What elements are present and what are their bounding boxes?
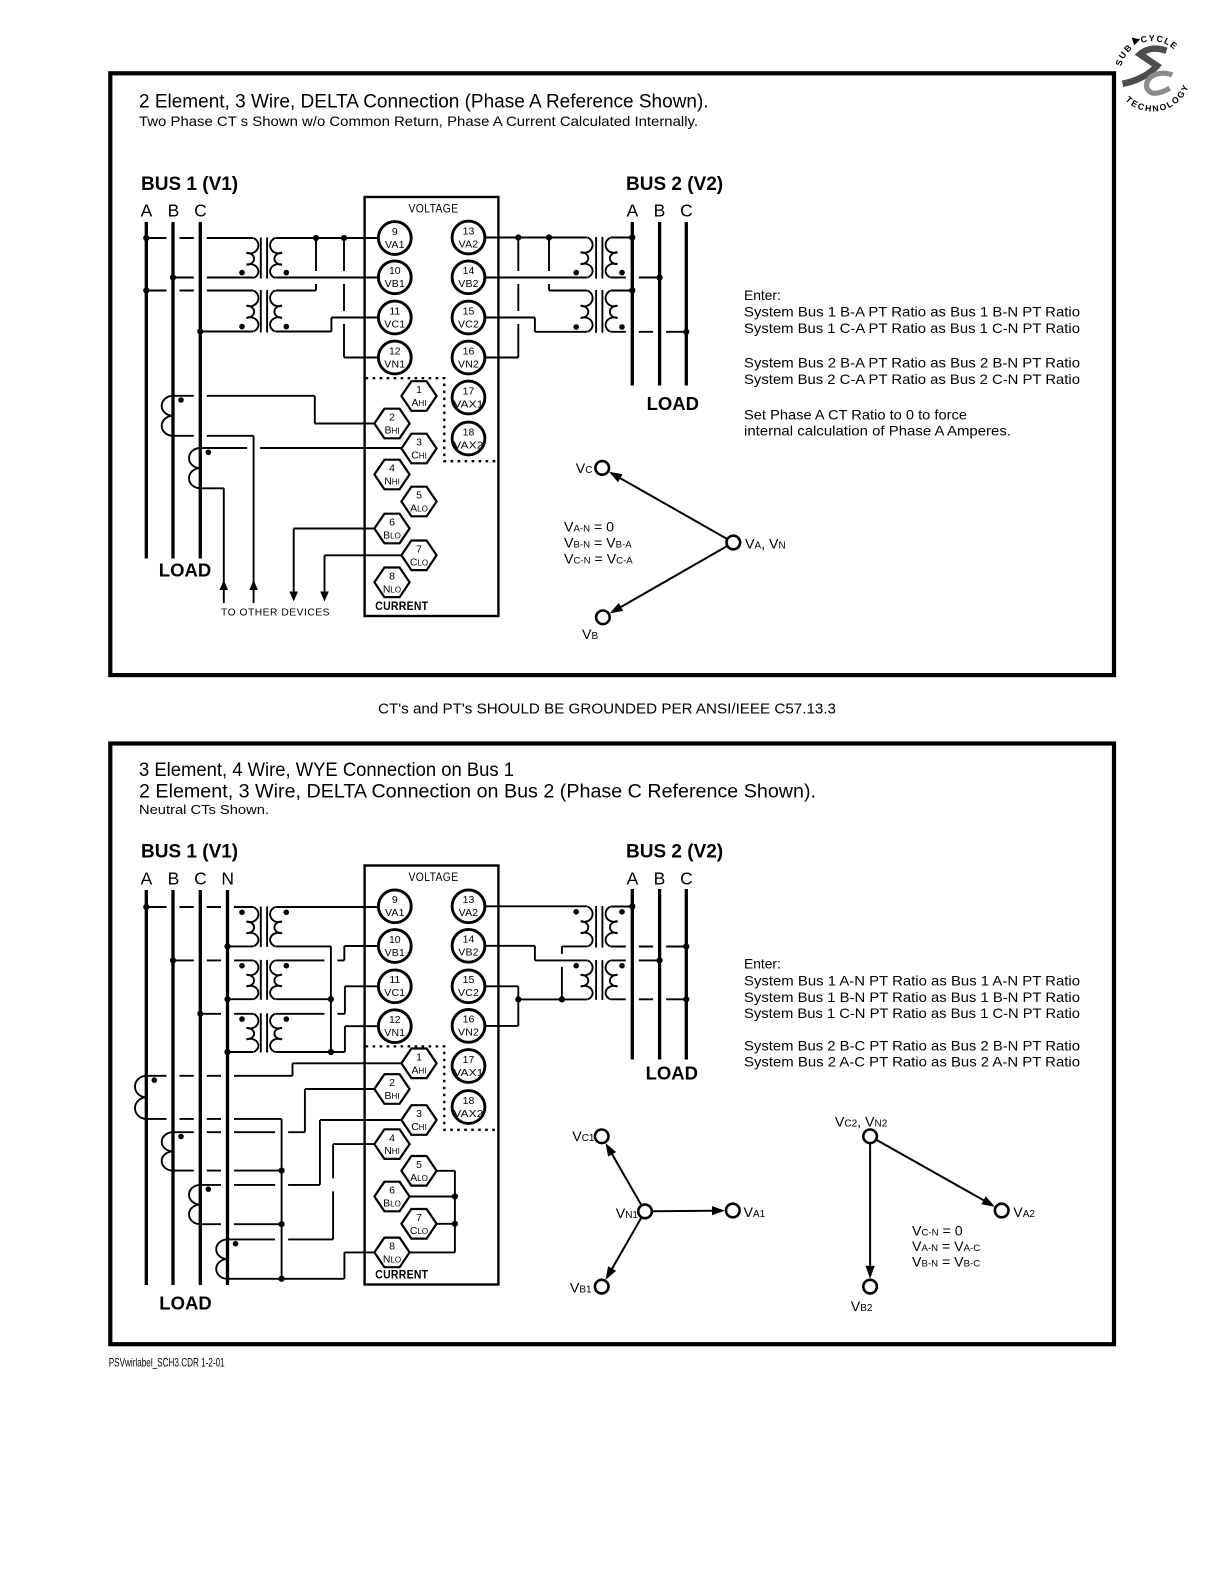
svg-text:System Bus 1 A-N PT Ratio as B: System Bus 1 A-N PT Ratio as Bus 1 A-N P… <box>744 974 1080 989</box>
junction secondary C net / VC2,VN2 tie <box>515 996 521 1002</box>
wire PT5 secondary top to VA1 <box>276 906 380 908</box>
junction bus A2 / PT4 top <box>629 287 635 293</box>
svg-text:1: 1 <box>416 1052 422 1064</box>
svg-text:VAX1: VAX1 <box>454 1067 484 1079</box>
svg-text:VA2: VA2 <box>459 907 479 919</box>
terminal 5 ALO panel2 <box>401 1156 436 1186</box>
svg-text:LOAD: LOAD <box>647 393 699 414</box>
bus2 phase labels A B C <box>627 201 693 221</box>
terminal 14 VB2 panel2 <box>452 929 485 962</box>
svg-text:VN2: VN2 <box>458 1027 479 1039</box>
junction bus A / PT1 <box>143 235 149 241</box>
svg-text:CLO: CLO <box>410 556 428 568</box>
terminal 1 AHI <box>401 381 436 411</box>
wire VN1 to secondary neutral <box>345 1025 380 1027</box>
svg-text:13: 13 <box>463 894 475 906</box>
svg-text:VAX2: VAX2 <box>454 1108 484 1120</box>
svg-text:15: 15 <box>463 305 475 317</box>
wire VN2 tie to VA2 wire <box>485 357 518 359</box>
svg-text:5: 5 <box>416 1159 422 1171</box>
CT C polarity dot <box>206 450 212 456</box>
wire bus A to PT5 primary top <box>146 906 253 908</box>
svg-text:B: B <box>654 201 666 221</box>
svg-text:A: A <box>141 869 153 889</box>
svg-text:BUS 1 (V1): BUS 1 (V1) <box>141 842 238 863</box>
wire PT7 primary bottom to neutral N <box>228 1051 254 1053</box>
svg-text:Set Phase A CT Ratio to 0 to f: Set Phase A CT Ratio to 0 to force <box>744 407 967 422</box>
CT B polarity dot <box>178 397 184 403</box>
svg-text:AHI: AHI <box>411 397 426 409</box>
svg-text:15: 15 <box>463 974 475 986</box>
junction bus C2 / PT9 bottom <box>683 996 689 1002</box>
svg-text:Enter:: Enter: <box>744 288 781 303</box>
terminal 18 VAX2 panel2 <box>452 1091 485 1124</box>
terminal 18 VAX2 <box>452 422 485 455</box>
bus2 phase labels A B C panel2 <box>627 869 693 889</box>
wire bus B to PT6 primary top <box>173 959 253 961</box>
junction bus A2 / PT3 top <box>629 234 635 240</box>
junction bus C2 / PT8 bottom <box>683 943 689 949</box>
svg-text:CURRENT: CURRENT <box>375 601 428 613</box>
svg-text:6: 6 <box>389 517 395 529</box>
panel 2 border <box>110 744 1114 1345</box>
transformer PT4 polarity dots <box>573 324 624 330</box>
wire PT5 primary bottom to neutral N <box>228 945 254 947</box>
junction secondary C net / PT8 tie <box>559 996 565 1002</box>
terminal 8 NLO panel2 <box>374 1238 409 1268</box>
svg-text:NLO: NLO <box>383 1253 401 1265</box>
terminal 10 VB1 panel2 <box>378 930 411 963</box>
wire CT-B secondary top to terminal BHI panel2 <box>173 1131 305 1133</box>
transformer PT3 primary coil <box>606 238 618 278</box>
phasor arrow VC2 to VB2 <box>869 1143 871 1266</box>
svg-text:A: A <box>627 869 639 889</box>
phasor arrow VA to VC <box>620 478 727 539</box>
bus1 line A <box>145 222 148 559</box>
CT B polarity dot panel2 <box>178 1134 184 1140</box>
arrow down to other devices (CLO) <box>320 592 329 602</box>
svg-text:4: 4 <box>389 463 395 475</box>
terminal 14 VB2 <box>452 261 485 294</box>
transformer PT7 secondary coil <box>270 1014 282 1052</box>
transformer PT3 secondary coil <box>581 238 593 278</box>
svg-text:VA1: VA1 <box>385 907 405 919</box>
svg-text:C: C <box>680 201 693 221</box>
terminal 9 VA1 <box>378 222 411 255</box>
wire bus A to PT1 primary top <box>146 237 253 239</box>
svg-text:BLO: BLO <box>383 530 401 542</box>
transformer PT5 polarity dots <box>239 910 289 916</box>
wire CT-C secondary top to terminal CHI panel2 <box>200 1184 320 1186</box>
phasor node VC <box>595 461 609 475</box>
svg-text:BUS 1 (V1): BUS 1 (V1) <box>141 174 238 195</box>
svg-text:BUS 2 (V2): BUS 2 (V2) <box>626 842 723 863</box>
svg-text:3: 3 <box>416 1108 422 1120</box>
transformer PT9 primary coil <box>606 960 618 999</box>
bus2 line B panel2 <box>658 889 661 1060</box>
wire PT6 secondary top to VB1 <box>276 959 345 961</box>
svg-text:VN2: VN2 <box>458 358 479 370</box>
svg-text:8: 8 <box>389 1241 395 1253</box>
svg-text:12: 12 <box>389 1014 401 1026</box>
wire CT-B secondary bottom to other devices <box>173 435 254 437</box>
wire VC2 to secondary C net <box>485 985 518 987</box>
transformer PT2 primary coil <box>247 291 259 332</box>
svg-text:CHI: CHI <box>411 450 427 462</box>
svg-text:12: 12 <box>389 345 401 357</box>
svg-text:3 Element, 4 Wire, WYE Connect: 3 Element, 4 Wire, WYE Connection on Bus… <box>139 760 514 781</box>
svg-text:Two Phase CT s Shown w/o Commo: Two Phase CT s Shown w/o Common Return, … <box>139 113 698 129</box>
svg-text:A: A <box>141 201 153 221</box>
wire CT-C secondary bottom to common return panel2 <box>200 1223 281 1225</box>
svg-text:6: 6 <box>389 1185 395 1197</box>
wire bus A to PT2 primary top <box>146 290 253 292</box>
wire bus C to PT7 primary top <box>200 1013 253 1015</box>
svg-text:VB1: VB1 <box>385 947 405 959</box>
junction VA2 wire / VN2 tie <box>515 234 521 240</box>
junction bus C2 / PT4 bottom <box>683 329 689 335</box>
svg-text:18: 18 <box>463 426 475 438</box>
svg-text:VC2: VC2 <box>458 987 479 999</box>
phasor node VB1 <box>595 1280 609 1294</box>
CT N polarity dot panel2 <box>233 1241 239 1247</box>
terminal 16 VN2 <box>452 341 485 374</box>
svg-text:N: N <box>221 869 234 889</box>
junction bus A / PT2 <box>143 287 149 293</box>
svg-text:C: C <box>194 201 207 221</box>
terminal 6 BLO panel2 <box>374 1182 409 1212</box>
CT on bus B <box>162 396 173 436</box>
transformer PT6 primary coil <box>247 960 259 999</box>
transformer PT7 primary coil <box>247 1014 259 1052</box>
terminal 12 VN1 panel2 <box>378 1010 411 1043</box>
CT C polarity dot panel2 <box>206 1186 212 1192</box>
svg-text:13: 13 <box>463 225 475 237</box>
bus1 line C <box>199 222 202 559</box>
transformer PT2 core <box>261 290 267 333</box>
svg-text:VB1: VB1 <box>385 278 405 290</box>
terminal 11 VC1 panel2 <box>378 970 411 1003</box>
svg-text:VN1: VN1 <box>384 1027 405 1039</box>
wire VN2 to secondary C net <box>485 1025 518 1027</box>
wire CT-A secondary bottom to common return <box>146 1118 281 1120</box>
phasor arrow VA to VB <box>621 546 728 607</box>
phasor node VC1 <box>595 1130 609 1144</box>
terminal 4 NHI <box>374 460 409 490</box>
CT on bus C <box>189 448 200 488</box>
bus2 line A panel2 <box>631 889 634 1060</box>
svg-text:VA1: VA1 <box>385 239 405 251</box>
terminal 17 VAX1 panel2 <box>452 1050 485 1083</box>
terminal 1 AHI panel2 <box>401 1049 436 1079</box>
transformer PT1 secondary coil <box>270 238 282 278</box>
svg-text:TO OTHER DEVICES: TO OTHER DEVICES <box>221 608 330 619</box>
terminal 4 NHI panel2 <box>374 1129 409 1159</box>
wire BLO to LO tie <box>410 1196 455 1198</box>
bus1 phase labels A B C <box>141 201 207 221</box>
svg-text:2 Element, 3 Wire, DELTA Conne: 2 Element, 3 Wire, DELTA Connection (Pha… <box>139 92 709 113</box>
phasor node VN1 <box>638 1205 652 1219</box>
svg-text:17: 17 <box>463 1054 475 1066</box>
transformer PT1 polarity dots <box>239 270 289 276</box>
svg-text:PSVwirlabel_SCH3.CDR 1-2-01: PSVwirlabel_SCH3.CDR 1-2-01 <box>109 1356 225 1370</box>
svg-text:BHI: BHI <box>384 425 399 437</box>
svg-text:System Bus 1 C-A PT Ratio as B: System Bus 1 C-A PT Ratio as Bus 1 C-N P… <box>744 321 1080 336</box>
wire CT-N secondary bottom to terminal NLO <box>228 1278 345 1280</box>
svg-text:VA-N = 0: VA-N = 0 <box>564 520 614 536</box>
dashed group box panel2 <box>366 1046 499 1129</box>
svg-text:LOAD: LOAD <box>159 1293 211 1314</box>
phasor node VA2 <box>995 1204 1009 1218</box>
wire bus C to PT2 primary bottom <box>200 331 253 333</box>
transformer PT9 secondary coil <box>581 960 593 999</box>
bus1 phase labels A B C N panel2 <box>141 869 234 889</box>
svg-text:NLO: NLO <box>383 583 401 595</box>
wire PT2 secondary bottom to VC1 <box>276 331 332 333</box>
wire PT6 secondary bottom to secondary neutral <box>276 998 331 1000</box>
transformer PT7 core <box>261 1013 267 1052</box>
wire PT2 secondary top tie to VA1 wire <box>276 290 317 292</box>
junction bus C / PT2 <box>197 328 203 334</box>
wire CT-C secondary top to terminal CHI <box>200 447 401 449</box>
svg-text:9: 9 <box>392 894 398 906</box>
junction LO tie / BLO <box>452 1193 458 1199</box>
svg-text:NHI: NHI <box>384 1145 400 1157</box>
svg-text:System Bus 2 C-A PT Ratio as B: System Bus 2 C-A PT Ratio as Bus 2 C-N P… <box>744 372 1080 387</box>
svg-text:10: 10 <box>389 934 401 946</box>
wire PT1 secondary top to VA1 <box>276 237 380 239</box>
svg-text:11: 11 <box>389 305 400 317</box>
wire VC2 to PT4 secondary bottom <box>485 317 535 319</box>
svg-text:11: 11 <box>389 974 400 986</box>
note text Enter ratios (panel 2) <box>744 957 1080 1070</box>
wire CLO to LO tie <box>437 1223 455 1225</box>
svg-text:BLO: BLO <box>383 1198 401 1210</box>
transformer PT1 primary coil <box>247 238 259 278</box>
wire CT-A secondary top to terminal AHI <box>146 1075 292 1077</box>
CT on bus N panel2 <box>216 1239 227 1278</box>
phasor arrow VC2 to VA2 <box>876 1140 984 1201</box>
junction bus C / PT7 <box>197 1011 203 1017</box>
svg-text:LOAD: LOAD <box>159 560 211 581</box>
wire PT9 primary bottom to bus C2 <box>611 998 686 1000</box>
terminal 2 BHI panel2 <box>374 1074 409 1104</box>
wire VA2 to PT3 secondary top <box>485 237 587 239</box>
svg-text:ALO: ALO <box>410 503 428 515</box>
svg-text:14: 14 <box>463 934 475 946</box>
terminal 11 VC1 <box>378 301 411 334</box>
svg-text:AHI: AHI <box>411 1064 426 1076</box>
svg-text:ALO: ALO <box>410 1172 428 1184</box>
svg-text:3: 3 <box>416 437 422 449</box>
svg-text:VB2: VB2 <box>458 947 478 959</box>
bus2 line B <box>658 222 661 386</box>
svg-text:2: 2 <box>389 1077 395 1089</box>
CT A polarity dot <box>152 1077 158 1083</box>
wire PT7 secondary bottom to secondary neutral <box>276 1051 331 1053</box>
svg-text:Enter:: Enter: <box>744 957 781 972</box>
wire PT4 primary top to bus A2 <box>611 290 632 292</box>
svg-text:VC1: VC1 <box>384 318 405 330</box>
wire PT1 secondary bottom to VB1 <box>276 277 380 279</box>
svg-text:16: 16 <box>463 345 475 357</box>
junction bus N / PT5 <box>224 943 230 949</box>
phasor node VB <box>596 611 610 625</box>
junction bus B / PT1 <box>170 274 176 280</box>
svg-text:1: 1 <box>416 384 422 396</box>
svg-text:BUS 2 (V2): BUS 2 (V2) <box>626 174 723 195</box>
svg-text:B: B <box>168 201 180 221</box>
svg-text:VAX1: VAX1 <box>454 398 484 410</box>
svg-text:LOAD: LOAD <box>646 1063 698 1084</box>
bus1 line B panel2 <box>171 890 174 1285</box>
svg-text:CLO: CLO <box>410 1225 428 1237</box>
wire CT-C secondary bottom to other devices <box>200 487 224 489</box>
svg-text:VC1: VC1 <box>384 987 405 999</box>
terminal 16 VN2 panel2 <box>452 1010 485 1043</box>
junction return / CT-C <box>279 1221 285 1227</box>
terminal 10 VB1 <box>378 261 411 294</box>
svg-text:VN1: VN1 <box>384 358 405 370</box>
transformer PT8 polarity dots <box>573 909 624 915</box>
terminal 8 NLO <box>374 568 409 598</box>
transformer PT4 secondary coil <box>581 291 593 332</box>
bus1 line C panel2 <box>199 890 202 1285</box>
transformer PT2 polarity dots <box>239 324 289 330</box>
transformer PT6 core <box>261 960 267 1000</box>
terminal 3 CHI <box>401 434 436 464</box>
junction bus B2 / PT3 bottom <box>657 274 663 280</box>
transformer PT5 core <box>261 907 267 947</box>
panel 1 border <box>110 73 1114 675</box>
wire PT8 secondary bottom tie down <box>562 945 587 947</box>
svg-text:System Bus 2 B-A PT Ratio as B: System Bus 2 B-A PT Ratio as Bus 2 B-N P… <box>744 356 1080 371</box>
phasor arrow VN1 to VA1 <box>652 1210 712 1213</box>
arrow up from other devices (C return) <box>220 580 229 590</box>
wire PT7 secondary top to VC1 <box>276 1013 345 1015</box>
junction secondary neutral / PT6 bottom <box>328 996 334 1002</box>
CT on bus B panel2 <box>162 1132 173 1170</box>
junction secondary neutral / VN1 tie <box>328 1049 334 1055</box>
phasor arrow VN1 to VB1 <box>612 1217 642 1268</box>
terminal 5 ALO <box>401 487 436 517</box>
svg-text:BHI: BHI <box>384 1090 399 1102</box>
phasor node VA1 <box>726 1204 740 1218</box>
wire VA2 to PT8 secondary top <box>485 905 587 907</box>
transformer PT5 primary coil <box>247 907 259 946</box>
bus1 line N panel2 <box>226 890 229 1285</box>
bus1 line B <box>171 222 174 559</box>
transformer PT8 secondary coil <box>581 907 593 947</box>
phasor node VA,VN <box>727 536 741 550</box>
svg-text:B: B <box>168 869 180 889</box>
terminal 7 CLO <box>401 541 436 571</box>
junction VA1 wire / VN1 tie <box>341 235 347 241</box>
wire CT-N secondary top to terminal NHI panel2 <box>228 1238 334 1240</box>
junction bus A / PT5 <box>143 904 149 910</box>
arrow down to other devices (BLO) <box>289 592 298 602</box>
wire PT5 secondary bottom to secondary neutral <box>276 945 331 947</box>
wire bus B to PT1 primary bottom <box>173 277 253 279</box>
terminal 13 VA2 panel2 <box>452 890 485 923</box>
phasor arrow VN1 to VC1 <box>612 1154 642 1205</box>
wire PT3 primary bottom to bus B2 <box>611 277 660 279</box>
transformer PT5 secondary coil <box>270 907 282 946</box>
junction bus N / PT7 <box>224 1049 230 1055</box>
svg-text:14: 14 <box>463 265 475 277</box>
wire CT-B secondary top to terminal BHI <box>173 395 315 397</box>
junction return / CT-B <box>279 1168 285 1174</box>
junction bus A2 / PT8 top <box>629 903 635 909</box>
svg-text:VOLTAGE: VOLTAGE <box>409 204 459 216</box>
wire PT4 primary bottom to bus C2 <box>611 331 686 333</box>
bus1 line A panel2 <box>145 890 148 1285</box>
CT on bus A panel2 <box>135 1076 146 1119</box>
transformer PT8 core <box>596 906 602 948</box>
terminal 3 CHI panel2 <box>401 1105 436 1135</box>
junction VA2 wire / PT4 secondary tie <box>546 234 552 240</box>
svg-text:4: 4 <box>389 1132 395 1144</box>
transformer PT1 core <box>261 238 267 279</box>
voltage terminal box panel2 <box>365 866 499 1285</box>
transformer PT4 core <box>596 290 602 333</box>
terminal 13 VA2 <box>452 221 485 254</box>
wire PT9 primary top to bus B2 <box>611 959 660 961</box>
terminal 7 CLO panel2 <box>401 1209 436 1239</box>
junction bus B / PT6 <box>170 957 176 963</box>
bus2 line C <box>685 222 688 386</box>
wire PT4 secondary top tie to VA2 wire <box>548 238 550 291</box>
terminal 15 VC2 <box>452 301 485 334</box>
svg-text:VA2: VA2 <box>459 238 479 250</box>
transformer PT8 primary coil <box>606 907 618 947</box>
dashed group box terminals 1-3,17,18 <box>366 378 499 461</box>
wire CT-B secondary bottom to common return panel2 <box>173 1170 282 1172</box>
transformer PT9 core <box>596 960 602 1000</box>
junction return / CT-N <box>279 1276 285 1282</box>
logo Sub Cycle Technology <box>1114 33 1192 114</box>
bus2 line C panel2 <box>685 889 688 1060</box>
junction VA1 wire / PT2 secondary tie <box>313 235 319 241</box>
wire PT8 primary top to bus A2 <box>611 906 632 908</box>
terminal 17 VAX1 <box>452 381 485 414</box>
svg-text:NHI: NHI <box>384 476 400 488</box>
junction LO tie / CLO <box>452 1221 458 1227</box>
bus2 line A <box>631 222 634 386</box>
svg-text:17: 17 <box>463 385 475 397</box>
terminal 15 VC2 panel2 <box>452 970 485 1003</box>
svg-text:8: 8 <box>389 571 395 583</box>
transformer PT9 polarity dots <box>573 963 624 969</box>
svg-text:16: 16 <box>463 1014 475 1026</box>
phasor equations panel 1 <box>564 520 633 568</box>
svg-text:18: 18 <box>463 1095 475 1107</box>
transformer PT6 secondary coil <box>270 960 282 999</box>
wire PT9 secondary bottom net <box>518 998 587 1000</box>
voltage terminal box <box>365 197 499 616</box>
svg-text:VB2: VB2 <box>458 278 478 290</box>
svg-text:System Bus 1 B-N PT Ratio as B: System Bus 1 B-N PT Ratio as Bus 1 B-N P… <box>744 990 1080 1005</box>
wire PT8 primary bottom to bus C2 <box>611 946 686 948</box>
svg-text:System Bus 2 B-C PT Ratio as B: System Bus 2 B-C PT Ratio as Bus 2 B-N P… <box>744 1038 1080 1053</box>
junction bus B2 / PT9 top <box>657 957 663 963</box>
svg-text:9: 9 <box>392 226 398 238</box>
panel 2 title <box>139 760 816 817</box>
svg-text:System Bus 1 B-A PT Ratio as B: System Bus 1 B-A PT Ratio as Bus 1 B-N P… <box>744 305 1080 320</box>
svg-text:VOLTAGE: VOLTAGE <box>409 872 459 884</box>
wire terminal BLO to other devices <box>294 528 375 530</box>
svg-text:VAX2: VAX2 <box>454 439 484 451</box>
